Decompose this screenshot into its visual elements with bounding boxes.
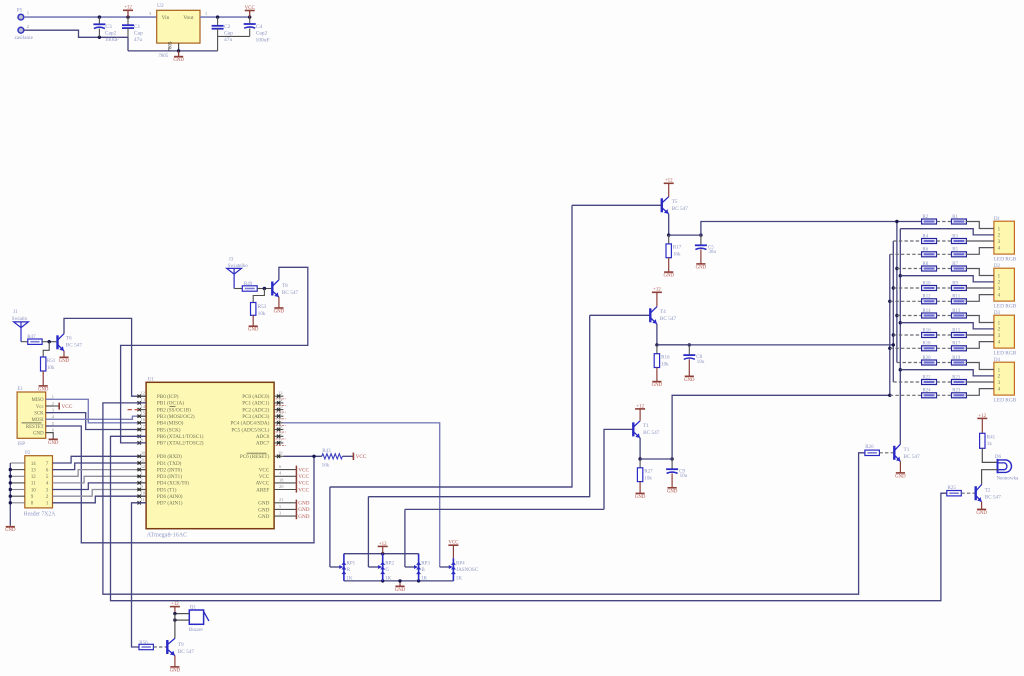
svg-text:Vcc: Vcc (36, 405, 44, 410)
resistor R26 (865, 444, 880, 455)
svg-text:D1: D1 (994, 216, 1001, 222)
svg-text:13: 13 (31, 468, 36, 473)
svg-text:D2: D2 (994, 263, 1001, 269)
svg-text:22: 22 (278, 437, 282, 442)
T emitter ground (895, 461, 906, 479)
svg-text:1K: 1K (385, 575, 392, 581)
wire to D3 pin3 (966, 334, 994, 336)
svg-text:PB5 (SCK): PB5 (SCK) (157, 426, 181, 433)
svg-text:P2: P2 (25, 450, 31, 456)
resistor R53 (251, 303, 267, 317)
svg-text:PD7 (AIN1): PD7 (AIN1) (157, 500, 183, 507)
resistor R49 (242, 281, 257, 291)
wire to D1 pin2 (900, 229, 994, 235)
wire lamp to T2 collector (982, 470, 998, 485)
svg-text:BC 547: BC 547 (660, 316, 677, 322)
wire to D4 pin2 (900, 370, 994, 376)
resistor R21 (937, 375, 967, 384)
svg-text:100uF: 100uF (256, 37, 270, 43)
svg-text:GND: GND (976, 511, 987, 516)
svg-text:R12: R12 (923, 295, 932, 300)
wire (21, 341, 28, 343)
P2 left pins to ground rail (5, 463, 25, 533)
U1 left pins (137, 391, 146, 505)
svg-text:BC 547: BC 547 (66, 343, 83, 349)
svg-text:PD1 (TXD): PD1 (TXD) (157, 460, 182, 467)
svg-text:+12: +12 (379, 542, 387, 547)
resistor R47 (27, 334, 42, 344)
svg-text:LED RGB: LED RGB (994, 257, 1017, 263)
svg-text:1k: 1k (987, 441, 993, 447)
svg-text:+12: +12 (636, 404, 644, 409)
svg-text:PC5 (ADC5/SCL): PC5 (ADC5/SCL) (231, 426, 269, 433)
potentiometer RP4 (440, 558, 479, 581)
wire LED bus pin4 net (889, 254, 891, 395)
svg-text:LED RGB: LED RGB (994, 398, 1017, 404)
svg-text:GND: GND (48, 441, 59, 446)
wire PB6 to neon driver base (111, 436, 947, 600)
svg-text:7805: 7805 (158, 54, 168, 59)
svg-text:AVCC: AVCC (256, 481, 270, 487)
wire buzzer to T9 collector (174, 620, 176, 638)
svg-text:PB4 (MISO): PB4 (MISO) (157, 420, 184, 427)
svg-text:100uF: 100uF (105, 37, 119, 43)
svg-text:+12: +12 (171, 602, 179, 607)
capacitor C3 (93, 17, 118, 43)
svg-text:PD4 (XCK/T0): PD4 (XCK/T0) (157, 480, 189, 487)
capacitor C8 (683, 345, 705, 383)
resistor R43 (322, 448, 343, 468)
svg-text:T9: T9 (178, 642, 184, 648)
wire to D2 pin4 (966, 295, 994, 302)
svg-text:PB2 (SS/OC1B): PB2 (SS/OC1B) (157, 406, 191, 413)
svg-text:GND: GND (298, 507, 309, 513)
svg-text:R15: R15 (952, 328, 961, 333)
svg-text:GND: GND (33, 431, 44, 436)
wire to D4 pin4 (966, 389, 994, 396)
svg-text:GND: GND (667, 489, 678, 494)
svg-text:Vin: Vin (162, 15, 170, 21)
resistor R8 (897, 262, 937, 271)
wire LED bus pin1 net (896, 222, 898, 363)
svg-text:GND: GND (173, 58, 184, 63)
resistor R10 (893, 281, 936, 290)
svg-text:14: 14 (31, 462, 36, 467)
svg-text:MOSI: MOSI (32, 418, 44, 423)
svg-text:T1: T1 (904, 447, 910, 453)
svg-text:GND: GND (258, 514, 269, 520)
svg-text:VCC: VCC (259, 467, 270, 473)
svg-text:LED RGB: LED RGB (994, 351, 1017, 357)
svg-text:PC0 (ADC0): PC0 (ADC0) (242, 393, 269, 400)
header P2 7X2A (24, 450, 57, 517)
T2 emitter ground (976, 502, 987, 516)
power +12 (123, 6, 133, 17)
resistor R19 (937, 356, 967, 365)
svg-text:PC4 (ADC4/SDA): PC4 (ADC4/SDA) (230, 420, 269, 427)
ground below R51 (38, 371, 49, 392)
wire T4 base (590, 314, 650, 316)
svg-text:R16: R16 (661, 355, 670, 361)
ground below R53 (248, 315, 259, 332)
svg-text:R5: R5 (952, 248, 958, 253)
wire to D3 pin4 (966, 342, 994, 349)
svg-text:GND: GND (696, 265, 707, 270)
svg-text:GND: GND (258, 507, 269, 513)
svg-text:PD6 (AIN0): PD6 (AIN0) (157, 493, 183, 500)
svg-text:GND: GND (298, 501, 309, 507)
T6 emitter ground (59, 351, 70, 364)
svg-text:T6: T6 (66, 336, 72, 342)
transistor T2 (976, 485, 1002, 502)
svg-text:GND: GND (684, 378, 695, 383)
svg-text:R27: R27 (644, 469, 653, 475)
wire SCK to PB5 (46, 413, 146, 430)
red mark at PB2 (128, 409, 141, 411)
svg-text:Buzzer: Buzzer (189, 627, 204, 633)
T8 emitter ground (274, 297, 285, 314)
power VCC bar at U1 (296, 466, 309, 494)
svg-text:R18: R18 (923, 342, 932, 347)
svg-text:ISP: ISP (17, 441, 25, 447)
svg-text:R7: R7 (952, 262, 958, 267)
svg-text:R19: R19 (952, 356, 961, 361)
svg-text:R24: R24 (923, 389, 932, 394)
resistor R18 (890, 342, 937, 351)
svg-text:Cap: Cap (134, 31, 143, 37)
wire PB1 to LED driver base (103, 403, 865, 594)
transistor T4 (650, 307, 676, 324)
wire T4 emitter to LED bus G (657, 344, 893, 346)
svg-text:R53: R53 (258, 304, 267, 310)
svg-text:GND: GND (635, 495, 646, 500)
svg-text:G: G (386, 567, 390, 573)
svg-text:Q1: Q1 (190, 605, 197, 611)
T1 emitter wire (639, 438, 641, 459)
svg-text:GND: GND (274, 310, 285, 315)
svg-text:VCC: VCC (298, 474, 309, 480)
svg-text:RP3: RP3 (421, 560, 430, 566)
svg-text:D3: D3 (994, 310, 1001, 316)
svg-text:PC6 (RESET): PC6 (RESET) (240, 453, 270, 460)
svg-text:R16: R16 (923, 328, 932, 333)
svg-text:SCK: SCK (34, 411, 44, 416)
power VCC at RP4 (448, 541, 459, 559)
wire to T8 base (257, 288, 272, 290)
wire RP top rail (344, 553, 419, 555)
svg-text:RP4: RP4 (456, 560, 465, 566)
svg-text:11: 11 (141, 497, 145, 502)
svg-text:VCC: VCC (259, 474, 270, 480)
resistor R56 (139, 640, 153, 650)
resistor R9 (937, 281, 967, 290)
svg-text:10k: 10k (258, 311, 266, 317)
svg-text:+12: +12 (653, 288, 661, 293)
svg-text:PB0 (ICP): PB0 (ICP) (157, 393, 179, 400)
svg-text:Neonowka: Neonowka (997, 476, 1020, 482)
svg-text:+12: +12 (124, 6, 132, 11)
wire to D2 pin2 (900, 276, 994, 282)
capacitor C9 (666, 459, 688, 494)
svg-text:ADC7: ADC7 (256, 441, 270, 447)
svg-text:R14: R14 (923, 309, 932, 314)
power VCC at ISP (46, 403, 73, 410)
resistor R17 (663, 235, 681, 279)
svg-text:R6: R6 (923, 248, 929, 253)
svg-text:Cap2: Cap2 (256, 30, 268, 36)
svg-text:10u: 10u (680, 473, 688, 479)
svg-text:PB7 (XTAL2/TOSC2): PB7 (XTAL2/TOSC2) (157, 440, 204, 447)
svg-text:10k: 10k (644, 475, 652, 481)
svg-text:Cap2: Cap2 (105, 30, 117, 36)
svg-text:Cap: Cap (224, 31, 233, 37)
svg-text:GND: GND (663, 274, 674, 279)
svg-text:zasilanie: zasilanie (15, 35, 34, 41)
svg-text:R17: R17 (673, 245, 682, 251)
resistor R2 (922, 215, 937, 224)
capacitor C1 (122, 17, 143, 43)
svg-text:R4: R4 (923, 234, 929, 239)
U1 right pins (274, 391, 296, 516)
wire Vout to VCC (200, 16, 250, 18)
svg-text:21: 21 (279, 497, 283, 502)
svg-text:1K: 1K (456, 575, 463, 581)
wire +12 rail (24, 16, 157, 18)
wire ISP RESET to MCU reset (46, 426, 314, 543)
svg-text:GND: GND (895, 474, 906, 479)
wire to R51 (43, 342, 49, 357)
svg-text:GND: GND (5, 528, 16, 533)
T8 collector route to PB7 (121, 267, 308, 443)
wire to D4 pin1 (966, 363, 994, 370)
svg-text:MISO: MISO (32, 398, 45, 403)
svg-text:R49: R49 (244, 281, 253, 287)
T9 emitter ground (170, 656, 181, 674)
resistor R23 (937, 389, 967, 398)
power +12 for T1 (635, 404, 645, 421)
resistor R12 (890, 295, 937, 304)
svg-text:BC 547: BC 547 (178, 649, 195, 655)
svg-text:RESTET: RESTET (26, 425, 44, 430)
wire to D1 pin4 (966, 248, 994, 255)
svg-text:D4: D4 (994, 357, 1001, 363)
svg-text:GND: GND (248, 328, 259, 333)
resistor R1 (937, 215, 967, 224)
svg-text:PB1 (OC1A): PB1 (OC1A) (157, 400, 184, 407)
wire from pin2 (24, 30, 128, 37)
svg-text:PB6 (XTAL1/TOSC1): PB6 (XTAL1/TOSC1) (157, 433, 204, 440)
resistor R7 (937, 262, 967, 271)
svg-text:R11: R11 (952, 295, 960, 300)
power +12 for T5 (664, 179, 674, 197)
svg-text:+12: +12 (978, 414, 986, 419)
wire to D2 pin1 (966, 269, 994, 276)
resistor R16 (652, 345, 670, 388)
svg-text:R26: R26 (865, 444, 874, 450)
svg-text:ATmega8-16AC: ATmega8-16AC (147, 532, 188, 538)
transistor T8 (272, 280, 298, 297)
transistor T5 (662, 197, 689, 214)
wire to D2 pin3 (966, 287, 994, 289)
svg-text:R21: R21 (952, 375, 961, 380)
capacitor C5 (695, 235, 717, 270)
svg-text:+12: +12 (665, 179, 673, 184)
resistor R25 (947, 485, 962, 496)
transistor T6 (58, 334, 83, 351)
wire MOSI to PB3 (46, 416, 146, 419)
svg-text:J3: J3 (229, 256, 234, 262)
svg-text:12: 12 (31, 475, 36, 480)
svg-text:E1: E1 (17, 386, 23, 392)
resistor R6 (890, 248, 937, 257)
svg-text:PC3 (ADC3): PC3 (ADC3) (242, 413, 269, 420)
svg-text:32: 32 (141, 464, 145, 469)
wire to T2 base (961, 492, 975, 494)
svg-text:PD5 (T1): PD5 (T1) (157, 486, 177, 493)
capacitor C2 (212, 17, 234, 51)
svg-text:R3: R3 (952, 234, 958, 239)
svg-text:47u: 47u (224, 37, 233, 43)
resistor R17 (937, 342, 967, 351)
svg-text:RP2: RP2 (385, 560, 394, 566)
svg-text:1K: 1K (346, 575, 353, 581)
power GND bar at U1 (296, 500, 309, 520)
svg-text:R22: R22 (923, 375, 932, 380)
svg-text:J1: J1 (13, 309, 18, 315)
svg-text:T4: T4 (660, 309, 666, 315)
svg-text:11: 11 (31, 482, 36, 487)
resistor R41 (980, 433, 996, 448)
svg-text:VCC: VCC (448, 541, 459, 546)
ground at RP rail (395, 579, 406, 593)
wire LED bus pin3 net (892, 241, 894, 382)
svg-text:47u: 47u (134, 37, 143, 43)
resistor R5 (937, 248, 967, 257)
power +12 neon (977, 414, 987, 434)
capacitor C4 (218, 17, 270, 43)
wire to T base (879, 452, 893, 454)
svg-text:7805: 7805 (169, 41, 174, 52)
svg-text:C2: C2 (224, 24, 231, 30)
svg-text:PC2 (ADC2): PC2 (ADC2) (242, 406, 269, 413)
svg-text:VCC: VCC (298, 467, 309, 473)
svg-text:ADC6: ADC6 (256, 434, 270, 440)
svg-text:1: 1 (52, 394, 54, 399)
svg-text:LED RGB: LED RGB (994, 304, 1017, 310)
svg-text:T8: T8 (282, 283, 288, 289)
svg-text:R41: R41 (987, 434, 996, 440)
svg-text:T1: T1 (643, 423, 649, 429)
svg-text:2: 2 (141, 477, 143, 482)
svg-text:T2: T2 (985, 488, 991, 494)
svg-text:VCC: VCC (245, 6, 256, 11)
svg-text:PD3 (INT1): PD3 (INT1) (157, 473, 182, 480)
svg-text:BC 547: BC 547 (985, 495, 1002, 501)
svg-text:T5: T5 (672, 199, 678, 205)
resistor R11 (937, 295, 967, 304)
wire RP1 wiper to T5 base (330, 205, 572, 487)
wire to R53 (253, 289, 264, 303)
wire T5 emitter to LED bus R (701, 222, 922, 236)
wire PD7 to buzzer driver base (132, 503, 147, 647)
neon lamp D6 (995, 454, 1019, 482)
wire RP horizontal links (330, 486, 572, 488)
power VCC at R43 (342, 453, 367, 460)
wire reset net (283, 455, 321, 457)
wire (234, 288, 242, 290)
svg-text:GND: GND (395, 588, 406, 593)
LED RGB module D3 (994, 310, 1017, 357)
svg-text:Vout: Vout (183, 15, 194, 21)
wire to T6 base (42, 341, 56, 343)
wire RP bottom rail (344, 580, 454, 582)
header E1 ISP (17, 386, 55, 447)
svg-text:R23: R23 (952, 389, 961, 394)
regulator U2 (149, 3, 208, 59)
antenna J1 Swiatlo (12, 309, 29, 342)
svg-text:JASNOSC: JASNOSC (456, 567, 479, 573)
resistor R16 (893, 328, 936, 337)
wire to D3 pin1 (966, 316, 994, 323)
wire T5 base horizontal (572, 204, 661, 206)
potentiometer RP1 (330, 554, 356, 582)
svg-text:PB3 (MOSI/OC2): PB3 (MOSI/OC2) (157, 413, 195, 420)
svg-text:C4: C4 (256, 24, 263, 30)
ISP ground (46, 433, 59, 446)
transistor T1 (633, 421, 659, 438)
U2 gnd pin + ground (173, 43, 184, 63)
wire LED bus pin2 common net (899, 229, 901, 445)
svg-text:30u: 30u (708, 249, 716, 255)
svg-text:VCC: VCC (298, 481, 309, 487)
T4 emitter wire (656, 324, 658, 345)
resistor R51 (41, 357, 56, 371)
svg-text:R25: R25 (948, 485, 957, 491)
resistor R13 (937, 309, 967, 318)
svg-text:31: 31 (141, 457, 145, 462)
T collector to bus (899, 443, 901, 445)
svg-text:PD2 (INT0): PD2 (INT0) (157, 466, 182, 473)
LED RGB module D1 (994, 216, 1017, 263)
svg-text:U2: U2 (157, 3, 164, 9)
LED RGB module D2 (994, 263, 1017, 310)
potentiometer RP2 (368, 554, 394, 582)
wire PC4 to RP4 wiper (283, 423, 439, 567)
power +12 at RP rail (378, 542, 388, 554)
wire T1 emitter to LED bus B (672, 395, 890, 459)
svg-text:10k: 10k (661, 361, 669, 367)
svg-text:BC 547: BC 547 (282, 290, 299, 296)
wire to D1 pin1 (966, 222, 994, 229)
svg-text:10u: 10u (697, 359, 705, 365)
svg-text:R1: R1 (952, 215, 958, 220)
T5 emitter wire (668, 214, 670, 235)
svg-text:R2: R2 (923, 215, 929, 220)
wire to D1 pin3 (966, 240, 994, 242)
resistor R20 (897, 356, 937, 365)
svg-text:12: 12 (141, 391, 145, 396)
antenna J3 Swiatelko (227, 256, 249, 288)
svg-text:16k: 16k (673, 252, 681, 258)
microcontroller U1 ATmega8-16AC (146, 377, 274, 539)
svg-text:PC1 (ADC1): PC1 (ADC1) (242, 400, 269, 407)
svg-text:R47: R47 (27, 334, 36, 340)
power +12 buzzer (170, 602, 180, 614)
svg-text:R20: R20 (923, 356, 932, 361)
svg-text:GND: GND (59, 359, 70, 364)
svg-text:R10: R10 (923, 281, 932, 286)
connector P5 zasilanie (15, 8, 34, 41)
